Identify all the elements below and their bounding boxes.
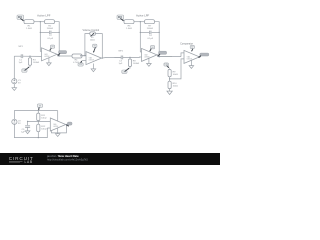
svg-text:10kΩ: 10kΩ [173, 74, 179, 76]
ground [48, 58, 50, 63]
op-amp OA3 [86, 52, 102, 65]
output stub [66, 124, 67, 126]
output net flag OUT1 [59, 51, 67, 54]
junction [27, 121, 28, 122]
wire [80, 55, 86, 57]
svg-text:jacobst / New Heart Rate: jacobst / New Heart Rate [46, 154, 79, 158]
V+ flag 5V [93, 44, 97, 47]
net flag 2.5V [122, 70, 127, 73]
wire [13, 84, 15, 88]
svg-text:100kΩ: 100kΩ [33, 62, 40, 64]
wire [37, 132, 39, 138]
wire minus input row [28, 120, 51, 122]
op-amp OA5 [50, 118, 66, 131]
junction [129, 57, 130, 58]
junction output-feedback [59, 55, 60, 56]
resistor R1 [24, 20, 34, 24]
wire V1 to input row [13, 56, 15, 78]
wire node A down [39, 22, 41, 52]
wire [37, 121, 39, 125]
ground [148, 58, 150, 63]
svg-text:1µF: 1µF [21, 132, 25, 134]
wire [34, 21, 45, 23]
wire feedback top [155, 22, 160, 57]
wire inverting input [140, 51, 141, 53]
svg-text:Active LPF: Active LPF [136, 14, 150, 18]
wire [129, 67, 131, 69]
wire node A down [139, 22, 141, 52]
ground [12, 88, 17, 91]
svg-text:100kΩ: 100kΩ [133, 63, 140, 65]
svg-text:LM358: LM358 [187, 58, 192, 60]
svg-text:1.5kΩ: 1.5kΩ [126, 28, 132, 30]
wire [169, 68, 171, 69]
wire to inverting input [181, 53, 184, 57]
wire mid rail [140, 31, 149, 33]
resistor R6 [124, 20, 134, 24]
svg-text:10kΩ: 10kΩ [90, 39, 95, 41]
wire pot right [95, 34, 102, 59]
ground [190, 60, 192, 65]
svg-text:0.1µF: 0.1µF [147, 38, 153, 40]
op-amp OA2 [142, 48, 158, 61]
junction [40, 32, 41, 33]
V+ flag 5V [50, 45, 54, 48]
resistor R9 [168, 69, 171, 76]
comparator output stub [200, 56, 201, 58]
voltage source V2 [12, 119, 17, 124]
svg-text:MP2: MP2 [118, 51, 123, 53]
wire stage2 output row [158, 56, 181, 58]
junction [84, 55, 85, 56]
junction [169, 78, 170, 79]
svg-text:MP1: MP1 [18, 46, 23, 48]
junction [66, 124, 67, 125]
capacitor C1 [20, 54, 22, 58]
wire [169, 77, 171, 81]
net flag MIC (input) [17, 15, 24, 19]
resistor R3 [29, 56, 31, 58]
svg-text:LM358: LM358 [89, 60, 94, 62]
wire [23, 55, 42, 57]
wire inverting input [40, 50, 41, 52]
junction [159, 56, 160, 57]
wire [134, 21, 145, 23]
output net flag OUT2 [159, 51, 167, 54]
svg-text:Active LPF: Active LPF [37, 14, 51, 18]
wire input row [114, 56, 121, 58]
svg-text:1.5kΩ: 1.5kΩ [26, 28, 32, 30]
svg-text:0.1µF: 0.1µF [47, 38, 53, 40]
svg-text:150kΩ: 150kΩ [147, 28, 154, 30]
wire to non-inverting input [170, 59, 184, 79]
resistor R12 [37, 124, 40, 132]
wire output [57, 54, 72, 56]
wire input row [14, 55, 21, 57]
op-amp CMP1 [184, 50, 200, 63]
wire output [157, 55, 172, 57]
net flag 2.5V [78, 63, 83, 66]
ground [92, 64, 94, 69]
resistor R11 [37, 113, 40, 121]
svg-text:http://circuitlab.com/c4e12rvh: http://circuitlab.com/c4e12rvh5g7k5 [47, 158, 88, 162]
wire V2 top [14, 111, 57, 120]
junction [29, 56, 30, 57]
wire V2 bottom rail [14, 124, 47, 137]
op-amp OA1 [42, 48, 58, 61]
ground [57, 128, 59, 134]
capacitor C2 [49, 31, 51, 35]
ground [25, 131, 30, 134]
junction [38, 110, 39, 111]
junction [38, 121, 39, 122]
resistor R8 [129, 57, 131, 59]
wire [37, 111, 39, 114]
feedback wire [51, 125, 66, 133]
footer bar [0, 153, 220, 165]
wire output [102, 56, 122, 59]
capacitor C4 [149, 31, 151, 35]
resistor R4 [72, 54, 82, 58]
net flag 2.5V to divider [164, 63, 169, 66]
V+ flag 5V [190, 45, 194, 48]
node A junction [40, 21, 41, 22]
potentiometer R5 [90, 32, 96, 35]
junction [38, 137, 39, 138]
node A junction [140, 21, 141, 22]
V+ flag 5V [150, 46, 154, 49]
svg-text:10kΩ: 10kΩ [41, 129, 47, 131]
svg-text:1µF: 1µF [18, 62, 22, 64]
capacitor C3 [120, 56, 122, 60]
capacitor C5 branch [27, 121, 29, 125]
voltage source V1 [12, 79, 17, 84]
svg-text:1µF: 1µF [118, 63, 122, 65]
svg-text:10kΩ: 10kΩ [41, 118, 47, 120]
wire pot left [85, 34, 90, 56]
svg-text:150kΩ: 150kΩ [47, 28, 54, 30]
V+ wire from 9V rail [57, 111, 59, 122]
wire inverting input [80, 55, 86, 57]
resistor R7 [145, 20, 155, 24]
non-inverting input wire [47, 127, 50, 129]
svg-text:Comparator: Comparator [180, 42, 193, 45]
output net flag OUT [200, 53, 209, 56]
junction [140, 32, 141, 33]
output net flag 4.5V [67, 122, 72, 125]
svg-text:LAB: LAB [25, 160, 33, 164]
non-inverting input wire [82, 59, 86, 61]
net flag 9V [37, 104, 42, 107]
wire [27, 127, 29, 130]
resistor R10 [168, 81, 171, 88]
wire [169, 89, 171, 92]
junction output-feedback [159, 56, 160, 57]
svg-text:10kΩ: 10kΩ [173, 86, 179, 88]
net flag 2.5V [22, 69, 27, 72]
net flag MIC (input) [117, 15, 124, 19]
resistor R2 [45, 20, 55, 24]
wire [123, 56, 142, 58]
wire [29, 65, 31, 67]
ground [167, 91, 172, 94]
wire feedback top [55, 22, 60, 56]
svg-text:LM358: LM358 [144, 56, 149, 58]
wire mid rail [40, 31, 49, 33]
svg-text:LM358: LM358 [44, 56, 49, 58]
svg-text:LM358: LM358 [53, 126, 58, 128]
